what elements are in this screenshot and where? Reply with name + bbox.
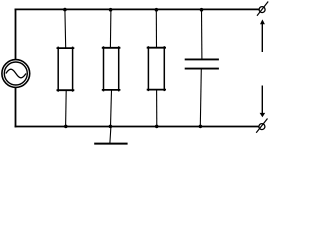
wire R2 bottom [111,90,112,127]
node C top junction R3 [155,8,159,12]
wire top rail [15,8,260,10]
node F bottom junction R2 [109,125,113,129]
wire C1 top [201,10,203,60]
resistor R3 [147,46,166,91]
node A top junction R1 [63,8,67,12]
node E bottom junction R1 [64,125,68,129]
node D top junction C1 [200,8,204,12]
wire R1 top [64,10,67,49]
wire R1 bottom [65,90,68,126]
ground [94,127,127,144]
wire left branch lower [15,88,17,128]
wire R3 top [155,10,157,48]
resistor R2 [102,46,121,91]
node B top junction R2 [109,8,113,12]
terminal T1 top [257,2,268,16]
node H bottom junction C1 [199,125,203,129]
voltage arrow up [260,19,265,52]
AC source V1 [2,60,30,88]
wire bottom rail [15,126,259,128]
wire R3 bottom [156,90,158,127]
voltage arrow down [260,86,266,118]
node G bottom junction R3 [155,125,159,129]
terminal T2 bottom [256,119,267,133]
wire R2 top [109,10,112,49]
wire C1 bottom [200,69,201,127]
resistor R1 [57,47,75,92]
wire left branch upper [15,9,17,60]
capacitor C1 [185,59,219,68]
